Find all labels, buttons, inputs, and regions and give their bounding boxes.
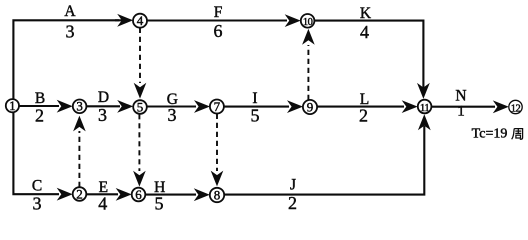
svg-text:N: N	[455, 88, 466, 105]
svg-text:11: 11	[420, 103, 429, 114]
arrowhead I into node 9	[287, 100, 303, 113]
wire B from node 1 to node 3	[19, 105, 59, 107]
arrowhead N into node 12	[493, 100, 509, 113]
arrowhead H into node 8	[194, 188, 210, 201]
arrowhead G into node 7	[194, 100, 210, 113]
svg-text:5: 5	[137, 99, 144, 114]
arrowhead A into node 4	[117, 14, 133, 27]
svg-text:2: 2	[288, 193, 297, 211]
arrowhead dummy 2-3 up into node 3	[73, 116, 86, 132]
node 8	[210, 188, 224, 202]
svg-text:1: 1	[457, 104, 465, 120]
svg-text:3: 3	[168, 105, 177, 125]
wire F from node 4 to node 10	[147, 19, 287, 21]
arrowhead D into node 5	[117, 100, 133, 113]
arrowhead B into node 3	[57, 100, 73, 113]
svg-text:2: 2	[35, 106, 44, 126]
svg-text:3: 3	[76, 99, 83, 114]
arrowhead C into node 2	[57, 188, 73, 201]
svg-text:9: 9	[307, 99, 314, 114]
svg-text:4: 4	[98, 193, 107, 211]
svg-text:3: 3	[33, 193, 42, 211]
wire E from node 2 to node 6	[86, 193, 118, 195]
dummy arrow 7-8 dashed line	[216, 114, 218, 171]
svg-text:I: I	[252, 90, 257, 107]
svg-text:A: A	[64, 3, 76, 20]
wire K from node 10 right then down into node 11	[314, 21, 423, 88]
wire H from node 6 to node 8	[145, 194, 196, 196]
svg-text:Tc=19: Tc=19	[472, 127, 508, 142]
svg-text:10: 10	[303, 17, 313, 28]
svg-text:7: 7	[214, 99, 221, 114]
arrowhead F into node 10	[285, 14, 301, 27]
svg-text:4: 4	[360, 22, 369, 42]
svg-text:C: C	[32, 177, 42, 194]
svg-text:D: D	[98, 89, 109, 106]
svg-text:4: 4	[137, 13, 144, 28]
node 7	[210, 100, 224, 114]
svg-text:6: 6	[135, 187, 142, 202]
svg-text:5: 5	[155, 193, 164, 211]
svg-text:B: B	[35, 90, 45, 107]
node 9	[303, 100, 317, 114]
wire G from node 5 to node 7	[147, 105, 196, 107]
arrowhead J up into node 11	[418, 114, 431, 130]
arrowhead E into node 6	[116, 188, 132, 201]
wire I from node 7 to node 9	[224, 106, 289, 108]
svg-text:6: 6	[214, 21, 223, 41]
arrowhead K down into node 11	[417, 83, 430, 99]
dummy arrow 9-10 dashed line	[307, 45, 309, 100]
dummy arrow 2-3 dashed line	[78, 131, 80, 187]
svg-text:12: 12	[511, 103, 521, 114]
node 2	[73, 187, 87, 201]
node 4	[133, 14, 147, 28]
svg-text:3: 3	[98, 105, 107, 125]
wire A horizontal into node 4	[115, 19, 122, 21]
node 1	[6, 99, 19, 112]
svg-text:1: 1	[9, 98, 16, 113]
node 6	[132, 188, 146, 202]
svg-text:5: 5	[251, 106, 260, 126]
label Zhou (week) CJK glyph drawn as strokes	[512, 129, 523, 140]
node 3	[73, 100, 87, 114]
wire D from node 3 to node 5	[86, 105, 120, 107]
wire L from node 9 to node 11	[317, 106, 404, 108]
arrowhead dummy 9-10 up into node 10	[302, 29, 315, 45]
node 5	[133, 100, 147, 114]
arrowhead L into node 11	[402, 100, 418, 113]
wire N from node 11 to node 12	[431, 106, 495, 108]
svg-text:K: K	[360, 5, 372, 22]
svg-text:8: 8	[214, 187, 221, 202]
node 11	[418, 100, 432, 114]
svg-text:3: 3	[66, 21, 75, 41]
wire from node 1 up-left corner to A arrow	[13, 20, 119, 99]
dummy arrow 4-5 dashed line	[139, 28, 141, 83]
dummy arrow 5-6 dashed line	[138, 114, 140, 171]
node 10	[301, 14, 315, 28]
arrowhead dummy 4-5 down into node 5	[134, 83, 147, 99]
svg-text:F: F	[214, 4, 223, 21]
wire J from node 8 right then up into node 11	[224, 126, 424, 195]
node 12	[509, 100, 522, 113]
svg-text:J: J	[290, 176, 296, 193]
svg-text:2: 2	[76, 186, 83, 201]
arrowhead dummy 7-8 down into node 8	[211, 171, 224, 187]
wire from node 1 down-left corner, C into node 2	[13, 112, 59, 194]
arrowhead dummy 5-6 down into node 6	[133, 171, 146, 187]
svg-text:2: 2	[359, 106, 368, 126]
